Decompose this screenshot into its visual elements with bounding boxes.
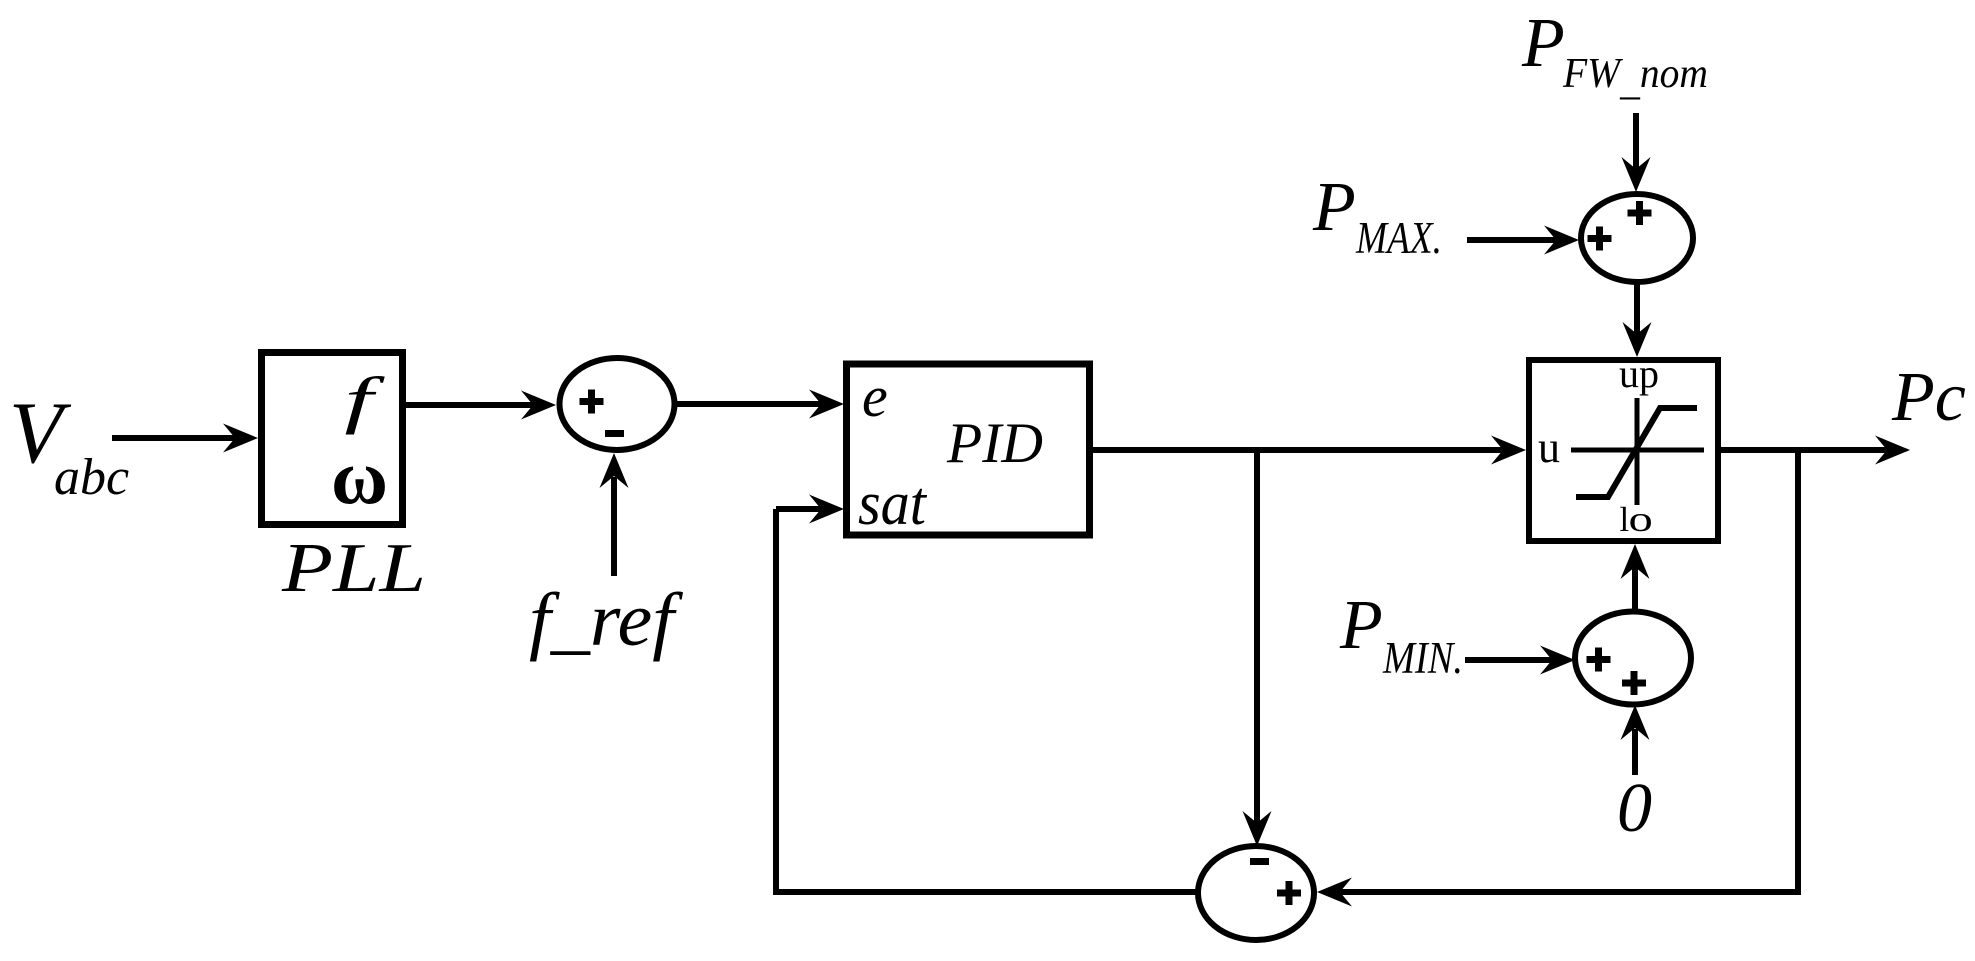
svg-text:P: P (1521, 5, 1565, 82)
label plus S1 (580, 390, 604, 414)
wire sat feedback arrow into PID (776, 495, 844, 524)
summing junction S3 (1575, 612, 1691, 705)
label minus S1 (605, 430, 624, 437)
label plus S2 left (1588, 227, 1612, 251)
svg-text:PID: PID (946, 412, 1043, 475)
svg-text:f_ref: f_ref (529, 578, 683, 662)
block PLL (262, 353, 403, 525)
svg-text:PLL: PLL (281, 530, 426, 607)
node tap on PID output (1243, 450, 1272, 846)
wire f_ref arrow into S1 (600, 453, 629, 576)
wire feedback tap from output down (1337, 450, 1798, 892)
svg-text:sat: sat (858, 470, 928, 538)
summing junction S4 (1198, 846, 1314, 940)
wire P_FW_nom arrow into summing junction S2 (1622, 113, 1651, 192)
svg-text:up: up (1619, 351, 1659, 396)
wire saturation output to Pc (1718, 436, 1910, 465)
block PID (847, 364, 1090, 535)
label Vabc (9, 385, 129, 506)
saturation icon horizontal axis (1571, 448, 1704, 453)
svg-text:ω: ω (331, 433, 388, 520)
svg-text:u: u (1538, 423, 1560, 472)
label plus S4 (1277, 881, 1301, 905)
wire P_MAX arrow into summing junction S2 (1467, 226, 1579, 255)
wire S3 to saturation lo port (1621, 544, 1650, 609)
svg-text:e: e (862, 364, 888, 429)
label minus S4 (1250, 858, 1269, 865)
svg-text:P: P (1312, 169, 1356, 246)
summing junction S1 (560, 358, 675, 450)
svg-text:o: o (1629, 500, 1653, 540)
wire f to summing junction S1 (406, 391, 556, 420)
wire PID output to saturation block (1090, 436, 1526, 465)
svg-text:MAX.: MAX. (1355, 213, 1442, 263)
saturation icon curve (1576, 408, 1697, 497)
wire 0 arrow into S3 (1621, 705, 1650, 775)
svg-text:FW_nom: FW_nom (1562, 51, 1708, 104)
svg-text:abc: abc (54, 449, 129, 506)
svg-text:Pc: Pc (1891, 359, 1966, 436)
wire S4 output feedback to sat input (776, 509, 1198, 892)
label P_MIN (1339, 587, 1463, 683)
wire P_MIN arrow into summing junction S3 (1465, 646, 1575, 675)
label P_MAX (1312, 169, 1442, 263)
svg-text:0: 0 (1617, 770, 1652, 847)
wire S2 to saturation up port (1623, 282, 1652, 357)
summing junction S2 (1581, 194, 1693, 282)
label plus S3 lower (1622, 671, 1646, 695)
label plus S3 left (1587, 648, 1611, 672)
wire Vabc input arrow (112, 424, 258, 453)
label plus S2 upper (1628, 201, 1652, 225)
block saturation U2 (1529, 360, 1718, 541)
saturation icon vertical axis (1635, 398, 1640, 505)
svg-text:MIN.: MIN. (1382, 633, 1463, 683)
arrowhead feedback into summing junction S4 (1317, 878, 1352, 907)
wire S1 to PID e input (675, 390, 844, 419)
label P_FW_nom (1521, 5, 1708, 104)
svg-text:P: P (1339, 587, 1383, 664)
